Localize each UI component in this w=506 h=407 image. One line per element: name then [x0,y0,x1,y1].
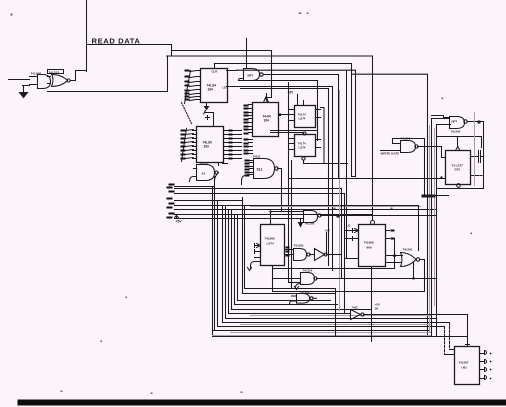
wire H88 inner box [241,89,329,266]
svg-text:74LS00: 74LS00 [294,244,304,248]
wire U4 output y74 [264,75,339,179]
wire U19 out [317,278,437,280]
gate U15 NOR with bubble [401,253,417,267]
wires U14 left from column [345,231,353,259]
wire U15 output loop down-left [273,260,425,292]
svg-text:74LS02: 74LS02 [403,248,413,252]
bubble U4 [260,73,263,76]
svg-text:LS74: LS74 [299,146,306,150]
H177.6 connects to FF3 [289,178,446,180]
bottom-most H335.5 [213,331,468,337]
left verticals through FF area [289,83,292,289]
wire U2A output to vertical x75 [48,71,87,84]
wires U11 inputs [381,139,401,151]
FF U13 74LS74 right [446,151,471,185]
wire V481 down from U12 out [483,123,485,189]
svg-text:74LS14: 74LS14 [300,290,310,294]
wire bus H185.7 [175,186,215,188]
pins U8big left column [250,161,254,175]
pins U10 [290,139,321,150]
pins U7 left [249,105,253,133]
pin U3 right LD [226,86,228,88]
hook arrow below left U17 [248,262,255,271]
gate U8big AND 74S11 [254,159,275,179]
wire bus H65.7 from x245 [237,70,356,176]
label box above U2A [48,70,64,74]
bubble below U10 [302,157,305,160]
ground arrow below U3 [205,103,209,110]
svg-text:LD: LD [223,86,227,90]
gate U18 NAND mid [294,249,307,261]
wire bus H218 [175,218,292,220]
FF U10 74LS74 lower [295,135,316,157]
svg-text:74S74: 74S74 [200,162,209,166]
pin U3 right top [227,69,237,71]
IC U5 74LS-mid left [197,127,224,163]
pin labels U7 [244,105,249,135]
wire U19 input2 [289,282,301,284]
cascade V233.8 [235,215,338,305]
wire READ DATA vertical from top [86,1,88,72]
wire V245.8 from top to NAND U4 [246,39,248,69]
svg-text:A1: A1 [202,172,206,176]
wire U1A input [9,80,30,86]
wire V394 from H268 [273,239,395,269]
gate U2A OR with bubble [52,74,68,87]
svg-text:U61: U61 [462,366,468,370]
wires U16 inputs [272,212,304,219]
pin top U21 [466,342,470,347]
svg-text:S11: S11 [257,168,263,172]
wire U5 bottom stub [219,163,228,166]
gate U1A AND left [30,75,51,89]
wire V418 into U15 area [418,206,420,251]
pin labels U5 left [181,130,186,160]
svg-text:74S11: 74S11 [253,155,261,159]
svg-text:74LS32: 74LS32 [49,71,60,75]
wire V346.5 to U14 pins [346,71,348,259]
svg-text:164: 164 [264,119,270,123]
cascade V230.9 [232,210,372,310]
bus labels left mid [167,184,175,219]
wire V412.7 OR in2 from U19 out [413,263,415,279]
wire bus H204.9 [175,205,419,207]
clock triangle above U7 [264,94,268,103]
V341 [341,189,343,278]
wire bus line y50 long [172,50,272,52]
wires U15 inputs [395,256,403,263]
wire U17 bottom to U19 [273,266,301,292]
svg-text:7405: 7405 [352,306,359,310]
pin labels U3 [185,70,190,101]
bracket capacitor right of U13 [471,151,483,163]
IC U14 74LS669 [359,225,386,267]
circle pin top U14 [371,221,375,225]
pins U5 left [182,129,197,162]
hook below U19 [295,284,301,290]
box V244.2 [245,206,336,289]
pin column between U7 and U8big [249,140,253,154]
bubble U8big [275,167,278,170]
wires U12 inputs [432,119,451,125]
ground below U1A [20,87,28,98]
svg-text:WRITE GATE: WRITE GATE [381,152,400,156]
pins U3 left [185,71,201,104]
pins U17 left [255,246,261,262]
svg-text:74LS00: 74LS00 [305,222,315,226]
IC U21 bottom right connector driver [455,347,480,385]
IC U3 74LS164 [201,69,228,103]
circle pin top U10 [303,132,306,135]
wire U8big lower hook [242,175,250,185]
svg-text:164: 164 [208,88,214,92]
svg-text:74LS00: 74LS00 [451,130,461,134]
wire bus H188.3 [175,188,342,190]
cascade V227.9 [229,210,351,314]
pins U21 left [445,350,455,355]
gate U19 NAND bottom [301,273,315,285]
wire H320.6 right end [445,323,450,355]
gate U12 NAND top right [450,117,465,129]
wire U17 top [270,212,272,225]
cascade V212 [213,177,429,331]
wire V271 down to U7 clock [266,51,272,103]
wire bus H192.8 [175,193,345,195]
svg-text:D75: D75 [455,168,461,172]
wires into U9/U10 from left [271,131,318,135]
wire U9-U10 link [317,110,319,135]
wire left return y91.5 [48,56,168,92]
junction blob right [422,195,436,198]
gray artifact verticals [213,91,435,336]
svg-text:CLR: CLR [212,70,218,74]
svg-text:NPT: NPT [452,120,458,124]
gate U6 AND below U5 [197,165,215,181]
cascade V225 [226,207,437,319]
wire U4 lower input loop [239,79,318,141]
svg-text:669: 669 [367,246,372,250]
svg-text:LD: LD [347,224,351,228]
IC U7 74164 right column [253,103,279,137]
FF U9 74LS74 upper [295,106,316,128]
cascade V217 [218,201,445,327]
wire U12 out [468,122,484,123]
wire READ DATA horizontal [87,45,172,57]
svg-text:74L666: 74L666 [265,237,276,241]
gate U16 NAND mid-bottom-top [304,211,318,223]
dotted diagonal above U5 fan [182,103,192,124]
pins U21 right connectors [480,351,487,380]
wire U11 out to FF U13 [418,147,446,158]
wire U7 output right [279,114,295,116]
wire U18 to U18b [310,254,314,256]
diode buffer U20 [351,310,361,320]
wire V214 into U3 top [214,64,216,69]
bottom border bar [18,400,506,406]
svg-text:LS74: LS74 [299,117,306,121]
cascade V222 [223,207,450,323]
svg-text:NPT: NPT [248,74,254,78]
wire U14 bottom pullup vertical [371,267,373,342]
triangle above U13 [456,147,461,151]
V335.4 [335,289,337,337]
gray artifact near U13 [474,113,476,186]
wire bus H60.7 [215,63,352,65]
V351.4 lower part [351,71,353,177]
svg-text:74LS14: 74LS14 [303,269,313,273]
wire U9 right U-loop [321,108,325,164]
box V241.9 [243,198,336,294]
pins U13 right [471,157,477,176]
wire bus line y55.5 long to U14 clock [167,56,373,220]
wire step x351.4 [352,64,428,337]
inverter U18b triangle [315,249,325,261]
ground arrow left of U16 [299,219,303,227]
wire bus H209 [175,209,437,211]
wire H85 from U3 LD to box right V331.8 [228,87,333,271]
gate U11 NAND (WRITE) [401,141,416,153]
wire H135.5 right [437,137,482,148]
cascade V236.8 [238,215,331,301]
svg-text:74LS07: 74LS07 [459,361,470,365]
svg-text:+5V: +5V [176,220,183,224]
bubble U6 [215,171,218,174]
V344.3 [344,194,346,314]
pins U9 [290,110,321,121]
wire bus H214.5 [175,214,372,216]
wire U6 output hook into bus [190,169,219,182]
wire U18b out [327,254,341,256]
pins U14 right [386,231,401,263]
gate U4 NAND top [244,69,260,81]
wire U20 out to right [364,315,468,347]
long verticals right cluster [424,139,426,196]
pins U5 right with labels [224,131,242,159]
pins U17 right labels [286,247,290,257]
svg-text:+5V: +5V [325,229,330,233]
IC U17 74LS74 bottom center [261,225,285,266]
svg-text:74LS08: 74LS08 [31,72,42,76]
wire H195.4 right cluster [425,195,449,197]
svg-text:LS74: LS74 [267,242,275,246]
svg-text:393: 393 [204,145,210,149]
wire U5 top supply [204,111,214,126]
svg-text:74L666: 74L666 [364,241,375,245]
pins U14 left [353,231,359,259]
bubble below U13 [457,184,461,188]
gate U19b NAND lowest [297,294,310,304]
clock marks U14 [353,229,359,241]
bubble U2A [67,79,70,82]
wire U8big output down [278,169,282,212]
pin labels U8big [245,160,250,177]
wire bus H199.9 [175,200,243,202]
wire U16 out [321,215,437,217]
